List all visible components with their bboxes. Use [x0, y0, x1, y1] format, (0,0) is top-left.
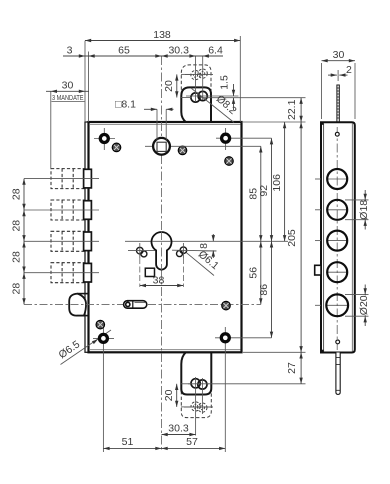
- ext line follower to right: [178, 145, 261, 147]
- latch bottom edge line: [77, 315, 89, 317]
- hole TL: [94, 128, 115, 150]
- fig8 right crosshair: [172, 249, 217, 252]
- centerline bolt 2: [24, 209, 99, 211]
- screw S2: [178, 146, 187, 155]
- ext line body right x240.3: [239, 36, 241, 122]
- dimension diameter 20: [345, 285, 370, 327]
- svg-text:2: 2: [346, 64, 352, 76]
- dimension 56: [247, 241, 262, 304]
- leader diameter 6.5: [57, 330, 111, 365]
- side circle 2 (bolt 2): [315, 200, 348, 220]
- node line through right rod hole: [186, 95, 239, 97]
- dimension 27: [286, 352, 303, 384]
- dimension 30 bolt throw: [46, 80, 89, 169]
- side view plate: [321, 122, 355, 352]
- side view threaded rod top: [337, 85, 339, 122]
- dimension 205: [286, 122, 303, 352]
- node line through left rod hole (ref for 22.1): [200, 97, 306, 99]
- centerline bolt 1: [24, 178, 99, 180]
- svg-text:Ø20: Ø20: [358, 295, 370, 315]
- euro cylinder cutout: [152, 232, 172, 270]
- side latch pin tab: [315, 265, 321, 275]
- svg-text:106: 106: [271, 174, 283, 192]
- ext line faceplate front x85: [84, 41, 86, 122]
- svg-text:65: 65: [118, 45, 130, 57]
- ext line bracket hole right center: [202, 56, 204, 100]
- deadbolt B3 faceplate section: [84, 232, 92, 251]
- dimension 138: [85, 29, 240, 42]
- dimension 20 (top bracket stroke): [163, 74, 192, 97]
- faceplate: [85, 122, 89, 352]
- deadbolt B2 (dashed): [51, 200, 84, 220]
- svg-text:20: 20: [163, 80, 175, 92]
- cylinder horizontal centerline: [125, 240, 288, 242]
- svg-text:28: 28: [11, 251, 23, 263]
- deadbolt B2 faceplate section: [84, 201, 92, 220]
- latch bolt: [69, 294, 86, 316]
- svg-text:28: 28: [11, 283, 23, 295]
- dimension 92: [258, 138, 273, 241]
- dimension 38: [140, 275, 184, 288]
- side plate corner notch top: [321, 122, 324, 125]
- svg-text:1.5: 1.5: [219, 75, 231, 90]
- top bracket phantom (extended position, dashed): [181, 65, 211, 100]
- side plate corner notch bottom: [321, 350, 324, 353]
- hole BL (fixing hole): [93, 328, 114, 452]
- leader diameter 8.2: [191, 88, 234, 123]
- top rod-guide bracket: [181, 87, 211, 122]
- svg-text:3: 3: [67, 45, 73, 57]
- fig8 hole left of cylinder: [137, 247, 147, 257]
- dimension 85: [247, 146, 262, 241]
- hole BR: [215, 327, 272, 452]
- latch top edge line: [78, 293, 89, 295]
- dimension 2 rod: [328, 64, 352, 81]
- centerline bolt 4: [24, 272, 99, 274]
- svg-text:30: 30: [333, 49, 345, 61]
- fig8 hole right of cylinder: [177, 247, 187, 257]
- ext line body top to right: [242, 121, 306, 123]
- deadbolt B3 (dashed): [51, 231, 84, 251]
- centerline bolt 3: [24, 240, 99, 242]
- side hole top: [335, 132, 339, 136]
- screw S5: [222, 301, 231, 310]
- side circle 1 (bolt 1): [315, 169, 348, 189]
- svg-text:38: 38: [153, 275, 165, 287]
- svg-text:8: 8: [198, 243, 210, 249]
- dimension 1.5: [219, 75, 236, 110]
- side hole bottom: [336, 340, 340, 344]
- deadbolt B1 (dashed thrown position): [51, 169, 84, 189]
- svg-text:Ø18: Ø18: [358, 200, 370, 220]
- svg-text:27: 27: [286, 362, 298, 374]
- side plate inner edge line: [323, 123, 325, 351]
- label 3 MANDATE: [52, 95, 85, 102]
- deadbolt B1 faceplate section: [84, 169, 92, 188]
- dimension 30.3 bottom: [162, 422, 196, 436]
- svg-text:6.4: 6.4: [208, 45, 223, 57]
- svg-text:86: 86: [258, 284, 270, 296]
- side view centerline: [336, 127, 338, 350]
- svg-text:138: 138: [153, 29, 171, 41]
- dimension 51 / 57: [103, 436, 225, 450]
- deadbolt B4 faceplate section: [84, 263, 92, 282]
- slide pin: [124, 301, 147, 309]
- svg-text:92: 92: [258, 185, 270, 197]
- square follower: [145, 138, 178, 155]
- fig8 left crosshair: [128, 250, 155, 252]
- svg-text:20: 20: [163, 389, 175, 401]
- svg-text:30.3: 30.3: [168, 422, 189, 434]
- ext line bracket hole left center: [195, 56, 197, 102]
- svg-text:30.3: 30.3: [168, 45, 189, 57]
- dimension 22.1: [286, 98, 303, 122]
- dimension 8 (fig8 offset): [198, 234, 216, 258]
- leader diameter 6.1: [186, 253, 214, 276]
- side view rod bottom: [336, 353, 340, 395]
- deadbolt B4 (dashed): [51, 263, 84, 283]
- dimension square 8.1: [115, 99, 174, 141]
- svg-text:□8.1: □8.1: [115, 99, 136, 111]
- svg-text:30: 30: [62, 80, 74, 92]
- centerline vertical (main axis): [161, 56, 163, 452]
- ext line faceplate back x88.5: [88, 52, 90, 123]
- lock body case: [89, 122, 242, 352]
- svg-text:3 MANDATE: 3 MANDATE: [52, 95, 84, 102]
- screw S4: [96, 320, 105, 329]
- small rectangular hole: [145, 268, 154, 276]
- ext line bottom fig8 to right: [208, 383, 306, 385]
- top bracket fig8 rod holes: [191, 91, 207, 102]
- bottom bracket fig8 rod holes: [191, 379, 207, 389]
- svg-text:28: 28: [11, 188, 23, 200]
- bottom rod-guide bracket: [181, 352, 211, 394]
- top bracket phantom crosshair: [185, 73, 213, 75]
- dimension 20 (bottom bracket stroke): [163, 384, 190, 407]
- screw S3: [225, 157, 234, 166]
- svg-text:28: 28: [11, 220, 23, 232]
- svg-text:51: 51: [122, 436, 134, 448]
- screw S1: [112, 143, 121, 152]
- svg-text:56: 56: [247, 267, 259, 279]
- bottom fig8 crosshair: [188, 383, 209, 385]
- dimension diameter 18: [345, 190, 370, 230]
- ext line bottom fig8 right center: [201, 378, 203, 414]
- dimension 86: [258, 241, 273, 337]
- side circle 4 (bolt 4): [315, 262, 348, 282]
- svg-text:57: 57: [186, 436, 198, 448]
- dimension 30 side plate: [322, 49, 356, 119]
- side circle 5 (latch): [315, 294, 349, 316]
- svg-text:22.1: 22.1: [286, 99, 298, 120]
- svg-text:205: 205: [286, 229, 298, 247]
- dimension chain 28x4: [11, 179, 26, 305]
- hole TR: [216, 128, 272, 150]
- dimension row 3 / 65 / 30.3 / 6.4: [63, 45, 223, 58]
- ext line bottom fig8 left center: [195, 377, 197, 436]
- side circle 3 (bolt 3): [315, 231, 348, 251]
- dimension 106: [271, 122, 286, 241]
- ext line body bottom to right: [243, 351, 306, 353]
- centerline latch / slide (dash-dot): [24, 303, 261, 305]
- bottom bracket phantom (dashed): [181, 375, 211, 417]
- bottom bracket phantom crosshair: [184, 406, 213, 408]
